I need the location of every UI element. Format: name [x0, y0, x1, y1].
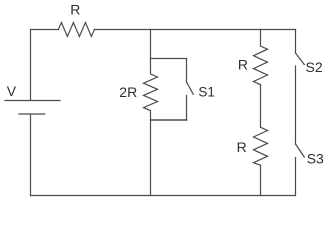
switch S1 blade — [187, 82, 194, 94]
resistor 2R — [144, 59, 158, 121]
resistor R1 (top R) — [58, 23, 94, 37]
battery V plate long — [5, 100, 60, 102]
svg-text:R: R — [238, 56, 248, 72]
svg-text:R: R — [237, 139, 247, 155]
battery V plate short — [19, 113, 45, 115]
wire top middle — [94, 29, 295, 31]
svg-text:S1: S1 — [198, 85, 215, 100]
wire between S2 and S3 — [295, 66, 297, 144]
switch S2 top contact — [295, 30, 297, 54]
wire left lower — [30, 114, 32, 196]
svg-text:R: R — [70, 2, 80, 18]
switch S1 lower contact — [186, 96, 188, 121]
wire between right resistors — [260, 85, 262, 128]
resistor R2 (right top) — [254, 46, 268, 85]
wire right resistor bottom lead — [260, 165, 262, 195]
svg-text:S3: S3 — [307, 151, 324, 167]
wire middle branch lower — [150, 121, 152, 196]
svg-text:S2: S2 — [306, 59, 323, 75]
switch S3 blade — [296, 144, 305, 157]
svg-text:V: V — [7, 83, 17, 99]
switch S1 top contact — [186, 59, 188, 83]
wire right branch top lead — [260, 30, 262, 47]
svg-text:2R: 2R — [119, 84, 137, 100]
switch S2 blade — [296, 53, 305, 65]
wire top-left segment — [31, 30, 59, 101]
resistor R3 (right bottom) — [254, 127, 268, 165]
wire bottom — [31, 195, 296, 197]
wire parallel bottom rail — [151, 119, 187, 121]
switch S3 lower contact — [295, 158, 297, 196]
wire parallel top rail — [151, 58, 187, 60]
wire middle branch upper — [150, 30, 152, 59]
